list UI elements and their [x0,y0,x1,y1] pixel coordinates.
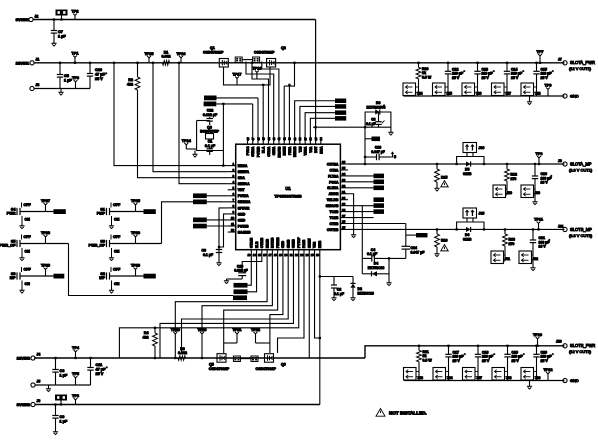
net label box r3 [348,186,384,191]
svg-text:J28: J28 [535,92,541,96]
wire gate bus 8 [288,84,290,137]
svg-text:25 V: 25 V [95,77,103,81]
wire rail to pin SENPA [152,62,228,172]
svg-text:TP15: TP15 [144,52,153,56]
svg-text:TC2B: TC2B [330,210,339,214]
svg-text:PHS2B: PHS2B [276,237,280,248]
ground [530,266,535,271]
svg-text:M4BN: M4BN [283,146,287,156]
package Q6b [240,356,258,362]
svg-text:TP7: TP7 [537,50,544,54]
svg-text:OFF: OFF [24,268,32,272]
svg-text:0.1 µF: 0.1 µF [367,252,378,256]
svg-text:TP25: TP25 [131,199,140,203]
capacitor C13 [474,62,494,96]
ground [46,385,51,392]
svg-text:47 µF: 47 µF [96,368,106,372]
diode D6 [463,227,472,241]
svg-text:VDDA: VDDA [304,146,308,156]
connector J7 SLOTA_PWR [558,58,595,72]
wire 12VIN2 rail [34,357,365,359]
svg-text:OUT3A: OUT3A [327,162,339,166]
net label box PGOOD [204,96,217,101]
jumper J34 [433,368,453,381]
ground [224,279,242,284]
pins U1 left [228,162,251,235]
net label box r4 [348,197,384,205]
svg-text:PGT2B: PGT2B [256,146,260,157]
svg-text:GN2B: GN2B [292,238,296,248]
wire return bus [404,95,565,97]
svg-text:1 µF: 1 µF [60,374,68,378]
wire rp11 to C24 [348,223,406,225]
transistor Q5 [209,354,230,371]
capacitor C9 [52,403,68,430]
net label box b3 [233,295,247,300]
svg-text:CSD87381P: CSD87381P [256,367,277,371]
ground [331,296,336,301]
switch S5 [0,231,69,261]
net label box PWR [54,209,66,214]
svg-text:18: 18 [274,253,278,257]
wire stair 3 [224,257,278,343]
wire Q2 drain branch [284,62,295,86]
svg-text:46: 46 [256,137,260,141]
test point TP17 [232,72,241,85]
svg-text:D2: D2 [358,287,363,291]
pins U1 top [246,137,324,158]
svg-text:C7: C7 [58,30,63,34]
svg-text:0.047 µF: 0.047 µF [411,251,426,255]
wire stair 1 [175,257,267,332]
svg-text:OT12A: OT12A [267,146,271,157]
svg-text:12VIN2: 12VIN2 [17,356,31,361]
wire to box tr4 [310,118,335,137]
svg-text:TP26: TP26 [131,231,140,235]
wire gate bus 5 [246,62,274,138]
wire gate bus 7 [283,86,285,137]
svg-text:TPS53667RSB: TPS53667RSB [274,194,301,199]
svg-text:TP22: TP22 [251,328,260,332]
svg-text:VB2: VB2 [313,242,317,248]
svg-text:C10: C10 [95,68,102,72]
svg-text:J4: J4 [37,353,41,357]
net label box GND [365,137,380,142]
test point TP21 [224,328,242,343]
svg-text:J3: J3 [36,83,40,87]
svg-text:45: 45 [262,137,266,141]
wire stair 2 [202,257,272,332]
connector J8 GND [563,94,579,99]
svg-text:VBLDB: VBLDB [327,198,339,202]
wire rail to pin SENAA [178,62,228,184]
wire 12V rail [34,62,564,64]
svg-text:SDA: SDA [238,176,246,180]
svg-text:TP20: TP20 [197,328,206,332]
package Q5b [233,356,240,362]
wire down riser link [315,257,321,338]
wire to box tr2 [300,106,335,137]
svg-text:BRG5B: BRG5B [277,146,281,158]
wire return bus [404,380,565,382]
svg-text:MP: MP [99,276,105,280]
wire Q3 box [197,121,224,151]
svg-text:10 V: 10 V [541,181,549,185]
svg-text:TP9: TP9 [545,83,552,87]
diode D5 [463,161,472,175]
svg-text:47: 47 [251,137,255,141]
svg-text:0.5 W: 0.5 W [423,358,433,362]
svg-text:OUT1B: OUT1B [327,228,339,232]
resistor R1 [162,51,171,66]
svg-text:PMP: PMP [97,212,106,216]
svg-text:TP5: TP5 [72,372,79,376]
resistor R13 [503,228,515,251]
svg-text:TX5: TX5 [298,146,302,152]
svg-text:PVTOP: PVTOP [297,236,301,248]
wire C4 vertical [361,206,363,274]
wire gate bus 3 [262,84,264,137]
jumper J27 [492,83,512,96]
svg-text:10 V: 10 V [539,245,547,249]
svg-text:IN12B: IN12B [265,238,269,248]
net label box r5 [348,203,384,211]
svg-text:J34: J34 [447,376,453,380]
net label box EN [204,102,217,107]
svg-text:CSD87381P: CSD87381P [254,51,275,55]
wire rail B out [365,346,565,358]
ground [216,261,221,266]
svg-text:R15: R15 [441,176,447,180]
svg-text:22: 22 [295,253,299,257]
wire net box 1 [217,97,259,99]
svg-text:35: 35 [314,137,318,141]
wire S6 route [162,202,194,244]
svg-text:40: 40 [288,137,292,141]
svg-text:270: 270 [509,242,515,246]
svg-text:PWR_OP: PWR_OP [89,244,106,248]
wire C2 branch [319,275,353,277]
svg-text:23: 23 [300,253,304,257]
wire b1 to box [248,257,252,285]
svg-text:34: 34 [342,172,346,176]
diode D2 [350,277,374,297]
wire to box tr3 [305,113,335,137]
svg-text:C9: C9 [60,415,65,419]
svg-text:U1: U1 [285,186,291,191]
resistor R11 [417,345,433,381]
jumper J38 [492,368,512,381]
resistor R16 [434,228,447,256]
svg-text:25 V: 25 V [453,359,461,363]
net label box GND2 [406,233,428,237]
test point TP4 [72,346,80,359]
test point TP14 [182,139,197,149]
power arrow 5V [390,152,396,159]
net label box r1 [348,174,384,179]
svg-text:0.022 µF: 0.022 µF [203,113,218,117]
svg-text:J6: J6 [37,399,41,403]
svg-text:J32: J32 [533,257,539,261]
switch S1 [97,199,144,229]
svg-text:SENAA: SENAA [238,182,250,186]
capacitor C15 [533,62,553,96]
svg-text:GND: GND [570,94,579,99]
net label box lA [193,193,228,198]
net label box top-right 2 [335,104,346,109]
wire gate bus 2 [257,98,259,137]
svg-text:43: 43 [272,137,276,141]
test point TP9 [545,83,552,96]
svg-text:SMAOB: SMAOB [326,204,339,208]
svg-text:BZX84C10: BZX84C10 [358,292,374,296]
svg-text:ON: ON [25,250,31,254]
transistor Q2 [254,46,286,67]
svg-text:Q6: Q6 [281,363,286,367]
jumper J29 [493,185,512,198]
connector J1 12VIN1 [16,58,40,66]
svg-text:BST: BST [314,146,318,152]
svg-text:30: 30 [342,196,346,200]
wire S5 route [69,244,234,296]
svg-text:TP4: TP4 [72,346,80,350]
svg-text:TP3: TP3 [72,76,79,80]
svg-text:32: 32 [342,184,346,188]
svg-text:1 µF: 1 µF [60,420,68,424]
svg-text:SKEW: SKEW [307,238,311,248]
connector J3 [30,83,39,91]
svg-text:1 µF: 1 µF [58,35,66,39]
svg-text:36: 36 [342,160,346,164]
svg-text:37: 37 [303,137,307,141]
svg-text:ON: ON [114,282,120,286]
svg-text:IN5B: IN5B [318,240,322,248]
svg-text:26: 26 [342,220,346,224]
svg-text:0.1 µF: 0.1 µF [203,253,214,257]
wire rail A [348,163,565,165]
switch S2 [99,263,143,293]
svg-text:SLOTB_PWR: SLOTB_PWR [570,343,595,348]
wire rp ground [348,194,356,238]
svg-text:38: 38 [298,137,302,141]
resistor R3 [178,347,187,360]
capacitor C5 [57,62,73,89]
svg-text:35: 35 [342,166,346,170]
svg-text:V3A: V3A [309,146,313,153]
svg-text:0.1 µF: 0.1 µF [334,292,345,296]
svg-text:0.047 µF: 0.047 µF [371,150,384,154]
svg-text:SLN3A: SLN3A [327,186,339,190]
svg-text:33: 33 [342,178,346,182]
net label box lD [193,224,228,229]
svg-text:R4: R4 [144,331,149,335]
svg-text:25 V: 25 V [482,76,490,80]
not installed triangle [441,181,449,187]
resistor R4 [143,327,158,360]
capacitor C12 [445,62,465,96]
test point TP11 [534,217,543,230]
capacitor C18 [475,345,495,381]
svg-text:3V3IN1: 3V3IN1 [16,17,30,22]
svg-text:(12 V OUT2): (12 V OUT2) [569,349,592,354]
svg-text:OFF: OFF [24,203,32,207]
svg-text:44: 44 [267,137,271,141]
svg-text:25 V: 25 V [512,359,520,363]
wire C23 branch [364,127,366,165]
connector J10 SLOTB_PWR [556,340,595,355]
svg-text:GT12A: GT12A [251,146,255,157]
svg-text:17: 17 [269,253,273,257]
connector J6b 3V3IN2 [17,399,41,407]
capacitor C4 [362,248,406,262]
wire stair 8 [278,257,305,353]
svg-text:TP6: TP6 [536,152,543,156]
svg-text:PWR: PWR [7,212,16,216]
svg-text:25: 25 [342,226,346,230]
test point TP1 [72,51,79,64]
svg-text:SD2B: SD2B [286,239,290,248]
svg-text:J27: J27 [506,92,512,96]
svg-text:C24: C24 [411,246,417,250]
net label box r2 [348,180,384,185]
svg-text:14: 14 [253,253,257,257]
ground [434,187,439,192]
svg-text:ON: ON [114,250,120,254]
wire gate bus 1 [252,104,254,137]
wire D4 right [388,257,390,281]
capacitor C17 [445,345,465,381]
svg-text:J26: J26 [476,92,482,96]
capacitor C10 [87,62,107,89]
svg-text:SLOTA_PWR: SLOTA_PWR [570,60,595,65]
svg-text:TP2: TP2 [72,9,79,13]
capacitor C32 [203,109,218,126]
capacitor C2 [331,277,345,297]
svg-text:42: 42 [277,137,281,141]
capacitor C20 [533,345,553,381]
jumper J36 bypass [455,143,485,166]
svg-text:SENPA: SENPA [238,170,250,174]
ground [364,126,394,135]
resistor R2 [127,62,140,90]
svg-text:CSD87381P: CSD87381P [209,367,230,371]
svg-text:12VIN1: 12VIN1 [16,60,30,65]
capacitor C3 [366,112,384,128]
svg-text:Q1: Q1 [210,46,215,50]
svg-text:13: 13 [247,253,251,257]
svg-text:Q2: Q2 [281,46,286,50]
jumper J35 bypass [455,208,485,231]
test point TP15 [144,52,153,63]
transistor Q3 [200,125,220,139]
svg-text:J37: J37 [477,376,483,380]
svg-text:J36: J36 [479,146,485,150]
svg-text:BZT52C10: BZT52C10 [368,266,385,270]
ground [58,89,63,96]
pins U1 right [326,160,348,232]
wire box to C32 [222,103,224,166]
ground [53,430,58,435]
svg-text:J24: J24 [417,92,423,96]
connector J11 SLOTB_MP [558,225,593,239]
connector J13 GND [563,378,579,383]
package Q1b [235,57,242,63]
svg-text:J39: J39 [535,376,541,380]
net label box r6 [348,209,384,217]
svg-text:R2: R2 [128,78,133,82]
wire 3V3 rail [33,19,316,21]
svg-text:TP1: TP1 [72,51,79,55]
svg-text:PH5A: PH5A [288,146,292,155]
transistor Q1 [203,46,228,67]
switch S3 [10,263,54,293]
connector J4 12VIN2 [17,353,41,361]
svg-text:J10: J10 [556,340,562,344]
jumper J26 [462,83,482,96]
svg-text:TP21: TP21 [232,328,241,332]
svg-text:IN12A: IN12A [238,164,248,168]
net label box PMP [144,209,156,214]
svg-text:26: 26 [316,253,320,257]
wire 3V3IN2 rail [35,404,320,406]
svg-text:432: 432 [143,336,149,340]
svg-text:PWR_OF: PWR_OF [0,244,16,248]
svg-text:ADDR: ADDR [329,192,339,196]
capacitor C19 [504,345,524,381]
jumper J30 [521,185,540,198]
ground [527,96,532,105]
test point TP5 [72,372,79,385]
capacitor C20 [234,264,247,279]
ground [386,281,391,286]
diode D4 [362,262,389,277]
wire rail B [348,228,565,230]
test point TP3 [72,76,79,89]
wire net box 2 [216,103,252,105]
svg-text:TP27: TP27 [41,199,50,203]
svg-text:27: 27 [342,214,346,218]
svg-text:47 µF: 47 µF [95,73,105,77]
svg-text:PST2B: PST2B [238,224,249,228]
jumper JP1 [56,10,68,21]
svg-text:CT3A: CT3A [330,168,339,172]
svg-text:TP29: TP29 [41,263,50,267]
jumper J32 [519,251,538,264]
resistor R12 [505,163,517,185]
connector J6 SLOTA_MP [558,159,593,173]
svg-text:SE412A: SE412A [238,200,251,204]
svg-text:25 V: 25 V [541,359,549,363]
wire gate bus 6 [262,62,279,138]
svg-text:J7: J7 [558,58,562,62]
svg-text:OT12B: OT12B [260,237,264,248]
svg-text:612B: 612B [463,237,472,241]
svg-text:BLA: BLA [262,146,266,153]
svg-text:16: 16 [263,253,267,257]
jumper J39 [521,368,541,381]
svg-text:TP8: TP8 [72,394,79,398]
svg-text:CH6A: CH6A [272,146,276,155]
svg-text:PA2B: PA2B [302,239,306,248]
wire to box tr1 [295,101,335,137]
net label box MP2 [144,274,156,279]
net label box top-right 1 [335,99,346,104]
jumper J31 [491,251,510,264]
svg-text:GND: GND [570,378,579,383]
ground [532,200,537,205]
svg-text:GT12B: GT12B [250,237,254,248]
not installed triangle [441,245,449,251]
